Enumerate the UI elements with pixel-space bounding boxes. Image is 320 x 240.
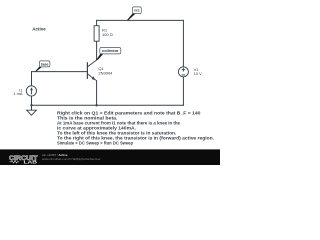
- wire I1 bottom stub: [31, 96, 33, 105]
- svg-text:base: base: [41, 62, 48, 66]
- svg-text:100 Ω: 100 Ω: [102, 32, 113, 37]
- svg-text:2N3904: 2N3904: [98, 70, 113, 75]
- svg-text:LAB: LAB: [24, 159, 38, 164]
- collector diagonal: [87, 60, 96, 67]
- resistor R1: [94, 26, 99, 42]
- svg-text:Simulate > DC Sweep > Run DC S: Simulate > DC Sweep > Run DC Sweep: [57, 141, 133, 146]
- footer bar: [0, 149, 220, 165]
- junction at emitter / bottom rail: [95, 104, 97, 106]
- wire bottom rail: [32, 104, 184, 106]
- node collector flag: [96, 48, 121, 60]
- current source I1: [26, 86, 36, 96]
- svg-text:collector: collector: [102, 49, 119, 53]
- wire R1 top stub: [96, 20, 98, 25]
- annotation text block: [57, 110, 214, 145]
- svg-text:10 V: 10 V: [194, 71, 203, 76]
- junction at I1 bottom: [30, 104, 32, 106]
- svg-text:vcc: vcc: [134, 9, 140, 13]
- wire V1 bottom stub: [182, 77, 184, 106]
- emitter diagonal: [87, 74, 96, 81]
- wire base horizontal: [32, 71, 88, 73]
- node base flag: [35, 61, 50, 71]
- wire ground stub: [31, 105, 33, 110]
- wire I1 top stub: [31, 72, 33, 86]
- base bar: [86, 62, 88, 79]
- node vcc flag: [127, 7, 141, 21]
- wire emitter vertical: [96, 81, 98, 106]
- wire V1 top stub: [182, 20, 184, 67]
- wire R1 bottom to collector: [96, 41, 98, 60]
- svg-text:1 mA: 1 mA: [13, 91, 23, 96]
- transistor Q1: [87, 60, 96, 81]
- emitter arrow: [92, 76, 96, 80]
- voltage source V1: [178, 67, 188, 77]
- svg-text:www.circuitlab.com/c/7ab8j2qhv: www.circuitlab.com/c/7ab8j2qhv2w4/active…: [42, 157, 101, 161]
- wire top rail vcc: [97, 19, 184, 21]
- svg-text:Active: Active: [32, 26, 46, 31]
- ground: [27, 110, 37, 115]
- CircuitLab logo: [9, 155, 38, 164]
